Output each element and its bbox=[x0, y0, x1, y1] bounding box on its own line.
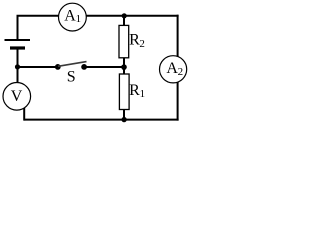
svg-text:2: 2 bbox=[139, 38, 145, 50]
wire bottom bbox=[24, 119, 178, 121]
svg-text:V: V bbox=[11, 88, 23, 105]
node junction dot middle (R2 / R1 / switch wire) bbox=[121, 64, 127, 70]
wire node down to voltmeter bbox=[17, 67, 19, 83]
switch S: right contact dot bbox=[81, 64, 87, 70]
battery cell: short negative plate bbox=[10, 46, 25, 49]
svg-text:S: S bbox=[67, 68, 76, 85]
resistor R1 bbox=[119, 74, 129, 110]
wire R2 bottom lead bbox=[123, 58, 125, 67]
switch S: left contact dot bbox=[55, 64, 61, 70]
svg-text:A: A bbox=[166, 60, 178, 77]
battery cell: long positive plate bbox=[5, 39, 31, 41]
wire voltmeter bottom lead bbox=[23, 108, 25, 121]
wire right side below A2 to bottom-right corner bbox=[177, 82, 179, 121]
node junction dot top (R2 / top wire) bbox=[122, 13, 127, 18]
wire R1 bottom lead bbox=[123, 110, 125, 120]
wire top from A1 to top-right corner bbox=[86, 15, 178, 17]
node junction dot left (battery / voltmeter / switch wire) bbox=[15, 64, 20, 69]
svg-text:2: 2 bbox=[178, 66, 184, 78]
wire top from battery corner to A1 bbox=[18, 16, 59, 40]
svg-text:1: 1 bbox=[76, 13, 82, 25]
ammeter A1 bbox=[59, 3, 87, 31]
switch S: lever arm bbox=[58, 62, 87, 67]
svg-text:R: R bbox=[129, 82, 140, 99]
wire right side down to A2 bbox=[177, 15, 179, 57]
node junction dot bottom (R1 / bottom wire) bbox=[121, 117, 126, 122]
resistor R2 bbox=[119, 25, 129, 57]
wire middle from switch to node B bbox=[84, 66, 124, 68]
wire R2 top lead bbox=[123, 16, 125, 26]
voltmeter V bbox=[3, 83, 31, 111]
wire battery bottom lead down to node bbox=[17, 48, 19, 67]
wire R1 top lead bbox=[123, 67, 125, 74]
svg-text:A: A bbox=[64, 8, 76, 25]
ammeter A2 bbox=[160, 56, 187, 83]
svg-text:1: 1 bbox=[140, 88, 146, 100]
wire middle from node to switch bbox=[17, 66, 58, 68]
